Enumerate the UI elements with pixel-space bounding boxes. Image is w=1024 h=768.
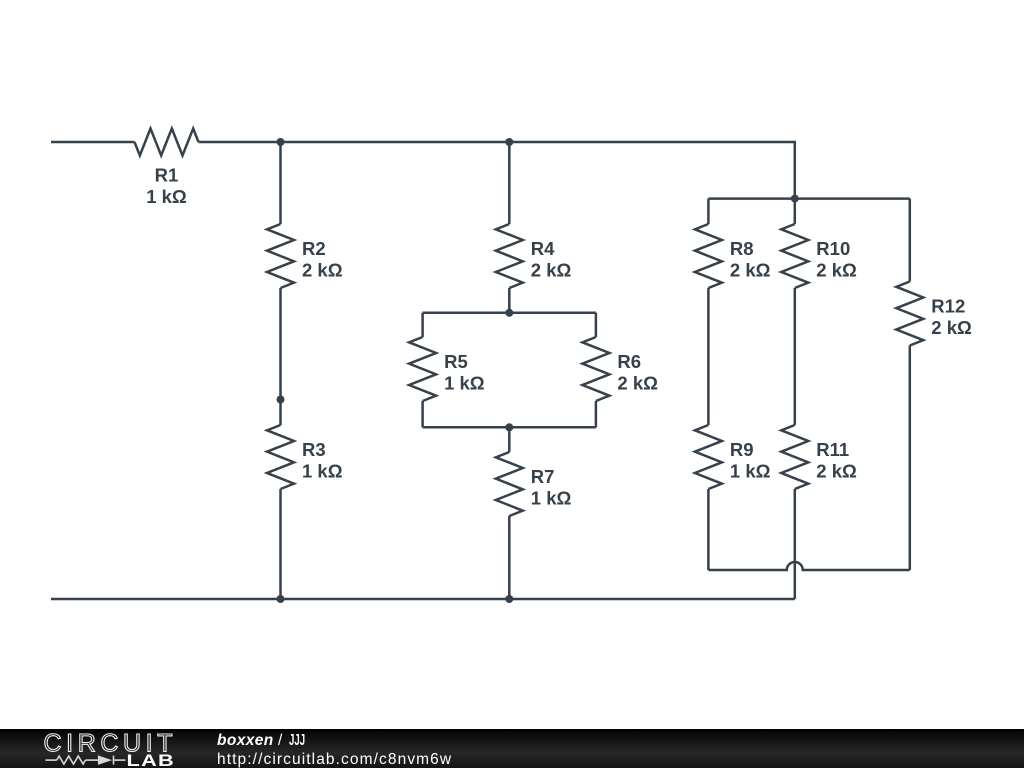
- resistor R7 zigzag: [496, 452, 523, 516]
- wire R4 column upper segment: [508, 142, 511, 224]
- svg-text:2 kΩ: 2 kΩ: [730, 260, 771, 281]
- resistor R3 zigzag: [267, 425, 294, 489]
- svg-text:R11: R11: [816, 439, 849, 460]
- svg-text:R12: R12: [931, 296, 965, 317]
- resistor R2 zigzag: [267, 224, 294, 288]
- svg-text:1 kΩ: 1 kΩ: [146, 186, 187, 207]
- svg-text:R9: R9: [730, 439, 754, 460]
- svg-text:R6: R6: [617, 351, 641, 372]
- CircuitLab logo resistor-diode glyph: [45, 756, 125, 765]
- resistor R11 zigzag: [781, 425, 808, 489]
- wire input lead top-left: [51, 141, 135, 144]
- wire parallel box top rail: [423, 312, 596, 315]
- wire main bottom rail: [51, 598, 795, 601]
- resistor R10 zigzag with top lead: [794, 199, 797, 224]
- svg-text:1 kΩ: 1 kΩ: [531, 488, 572, 509]
- junction node at parallel box bottom: [505, 423, 513, 431]
- resistor R12 zigzag with top lead: [909, 199, 912, 282]
- svg-text:R8: R8: [730, 238, 754, 259]
- resistor R9 zigzag: [695, 425, 722, 489]
- svg-text:R5: R5: [444, 351, 468, 372]
- svg-text:LAB: LAB: [127, 751, 176, 768]
- svg-text:2 kΩ: 2 kΩ: [931, 317, 972, 338]
- wire box to R7: [508, 427, 511, 452]
- svg-text:R2: R2: [302, 238, 326, 259]
- wire R4 to parallel box: [508, 288, 511, 313]
- wire R11 to main bottom rail (passes under hop): [794, 489, 797, 599]
- wire parallel box bottom rail: [423, 426, 596, 429]
- resistor R1 1 kOhm horizontal: [135, 129, 199, 156]
- svg-text:1 kΩ: 1 kΩ: [444, 373, 485, 394]
- svg-text:2 kΩ: 2 kΩ: [617, 373, 658, 394]
- wire right section bottom rail with hop over R11 column: [708, 562, 909, 570]
- wire R10-R11 middle segment: [794, 288, 797, 425]
- svg-text:R1: R1: [155, 165, 179, 186]
- svg-text:2 kΩ: 2 kΩ: [816, 461, 857, 482]
- svg-text:2 kΩ: 2 kΩ: [302, 260, 343, 281]
- resistor R4 zigzag: [496, 224, 523, 288]
- svg-text:R4: R4: [531, 238, 555, 259]
- svg-text:R7: R7: [531, 466, 555, 487]
- CircuitLab logo wordmark CIRCUIT: [0, 729, 220, 768]
- wire right section top rail: [708, 197, 909, 200]
- junction node at R1 output / R2 top: [277, 138, 285, 146]
- footer author line: [217, 732, 314, 750]
- svg-text:2 kΩ: 2 kΩ: [531, 260, 572, 281]
- wire R3 column lower segment: [279, 489, 282, 599]
- svg-text:2 kΩ: 2 kΩ: [816, 260, 857, 281]
- wire R12 to bottom rail: [909, 346, 912, 571]
- resistor R8 zigzag with top lead: [707, 199, 710, 224]
- wire R9 to bottom rail: [707, 489, 710, 570]
- wire R8-R9 middle segment: [707, 288, 710, 425]
- junction node at right rail / R10 top: [791, 195, 799, 203]
- junction node at parallel box top: [505, 309, 513, 317]
- junction node between R2 and R3: [277, 396, 285, 404]
- resistor R6 with box right leads: [595, 313, 598, 337]
- wire R2-R3 middle segment: [279, 288, 282, 425]
- svg-text:1 kΩ: 1 kΩ: [730, 461, 771, 482]
- svg-text:1 kΩ: 1 kΩ: [302, 461, 343, 482]
- junction node at bottom rail / R3: [277, 595, 285, 603]
- footer url line: [217, 751, 452, 768]
- resistor R5 with box left leads: [421, 313, 424, 337]
- svg-text:R10: R10: [816, 238, 850, 259]
- wire R2 column upper segment: [279, 142, 282, 224]
- footer bar: [0, 729, 1024, 768]
- wire top rail from R1 to right section corner: [199, 142, 795, 199]
- junction node at top rail / R4 top: [505, 138, 513, 146]
- wire R7 column lower segment: [508, 516, 511, 599]
- junction node at bottom rail / R7: [505, 595, 513, 603]
- svg-text:R3: R3: [302, 439, 326, 460]
